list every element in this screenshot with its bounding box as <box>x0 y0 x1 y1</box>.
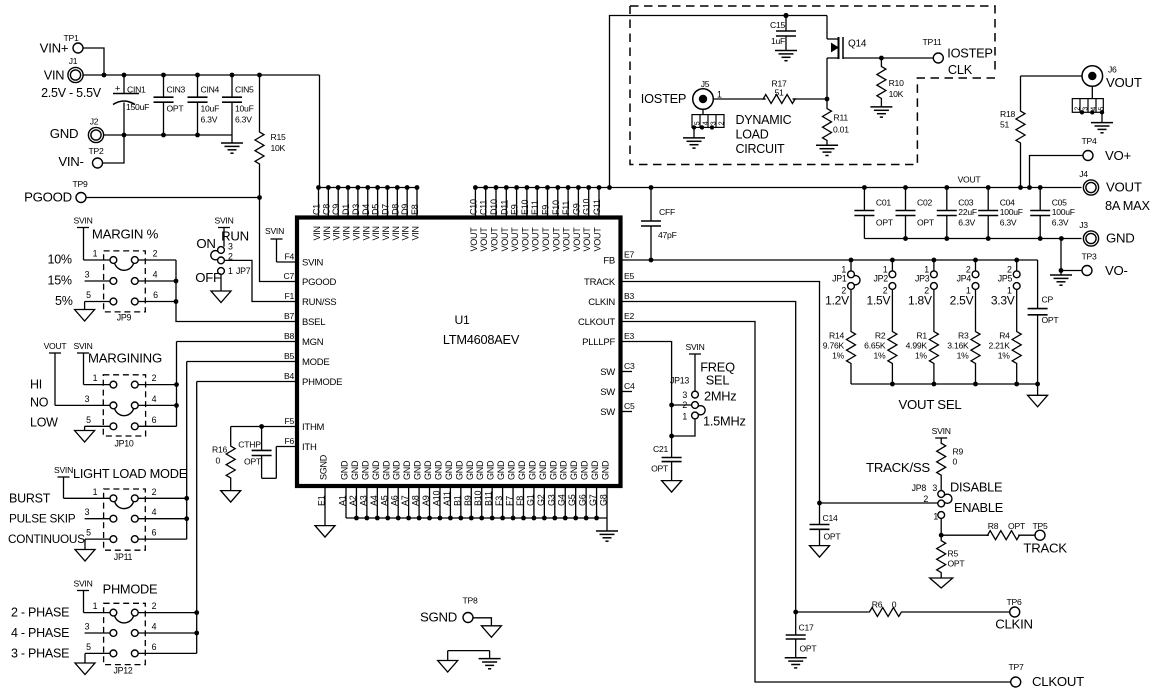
svg-text:J1: J1 <box>69 56 78 66</box>
svg-text:GND: GND <box>392 460 402 480</box>
svg-text:E9: E9 <box>510 204 520 215</box>
svg-text:5: 5 <box>694 121 701 125</box>
svg-text:R4: R4 <box>999 331 1010 341</box>
svg-text:SVIN: SVIN <box>685 342 704 352</box>
pin D1 VIN <box>341 188 352 241</box>
svg-text:VOUT: VOUT <box>500 227 510 252</box>
svg-text:SVIN: SVIN <box>54 465 73 475</box>
ground C17 <box>785 658 807 668</box>
svg-text:15%: 15% <box>48 274 72 288</box>
resistor R14 9.76K 1% <box>823 289 856 384</box>
test point TP1 VIN+ <box>40 33 83 56</box>
svg-text:A8: A8 <box>411 495 421 506</box>
svg-text:D10: D10 <box>489 199 499 215</box>
svg-text:D9: D9 <box>400 204 410 215</box>
svg-text:OPT: OPT <box>1008 521 1026 531</box>
svg-text:F7: F7 <box>505 496 515 506</box>
pin G8 GND <box>599 460 611 518</box>
svg-text:C02: C02 <box>917 198 932 208</box>
capacitor C21 OPT <box>651 444 682 481</box>
svg-text:VIN-: VIN- <box>58 154 83 169</box>
svg-text:B4: B4 <box>284 371 294 381</box>
svg-text:3.16K: 3.16K <box>947 341 969 351</box>
op-amp U1 LTM4608AEV module body <box>297 218 621 487</box>
svg-text:E10: E10 <box>520 199 530 215</box>
svg-text:4: 4 <box>1091 107 1098 111</box>
svg-text:GND: GND <box>50 126 79 141</box>
net SVIN at R9 <box>932 426 951 438</box>
svg-text:F11: F11 <box>561 201 571 215</box>
resistor R3 3.16K 1% <box>947 289 980 384</box>
svg-text:10%: 10% <box>48 253 72 267</box>
svg-text:SW: SW <box>600 407 615 418</box>
pin F8 GND <box>515 460 527 518</box>
svg-text:VOUT: VOUT <box>510 227 520 252</box>
svg-text:VIN: VIN <box>401 226 411 240</box>
jack J3 GND <box>1079 220 1134 246</box>
svg-text:BSEL: BSEL <box>302 317 325 328</box>
pin G5 GND <box>567 460 579 518</box>
ground E1 SGND <box>315 526 335 538</box>
svg-text:VIN: VIN <box>322 226 332 240</box>
svg-text:IOSTEP: IOSTEP <box>641 91 686 106</box>
capacitor CIN4 10uF <box>188 75 220 135</box>
svg-text:TP9: TP9 <box>72 179 87 189</box>
svg-text:VOUT: VOUT <box>582 227 592 252</box>
ground C15 <box>775 51 797 61</box>
svg-text:JP13: JP13 <box>670 376 689 386</box>
pin G10 VOUT <box>582 188 593 252</box>
pin B8 MGN <box>284 331 324 348</box>
jumper JP5 3.3V <box>991 260 1020 308</box>
svg-text:CIN4: CIN4 <box>201 85 220 95</box>
svg-text:VOUT: VOUT <box>572 227 582 252</box>
wire GND rail to VO- node <box>1059 239 1082 276</box>
svg-text:1.2V: 1.2V <box>825 294 849 308</box>
pin E2 CLKOUT <box>578 311 635 328</box>
wire PGOOD net <box>86 195 297 281</box>
svg-text:GND: GND <box>538 460 548 480</box>
svg-text:47pF: 47pF <box>658 230 677 240</box>
svg-text:A9: A9 <box>421 495 431 506</box>
svg-text:TP2: TP2 <box>88 146 103 156</box>
net SVIN at JP7 <box>214 216 233 247</box>
svg-text:CFF: CFF <box>659 207 675 217</box>
svg-text:C5: C5 <box>624 401 635 411</box>
wire ground tie <box>448 651 490 661</box>
svg-text:CONTINUOUS: CONTINUOUS <box>8 532 85 546</box>
svg-text:5: 5 <box>86 415 91 425</box>
svg-text:6.3V: 6.3V <box>235 115 252 125</box>
svg-text:R9: R9 <box>953 447 964 457</box>
pin G1 GND <box>525 460 537 518</box>
svg-text:JP1: JP1 <box>832 274 847 284</box>
svg-text:J2: J2 <box>90 117 99 127</box>
pin F11 VOUT <box>561 188 572 252</box>
svg-text:51: 51 <box>1000 120 1010 130</box>
svg-text:C04: C04 <box>1000 198 1015 208</box>
svg-text:JP8: JP8 <box>912 483 927 493</box>
wire input GND rail <box>103 133 232 143</box>
pin F5 ITHM <box>284 416 324 433</box>
svg-text:2MHz: 2MHz <box>704 389 736 404</box>
svg-text:OFF: OFF <box>195 270 221 285</box>
svg-text:4: 4 <box>153 270 158 280</box>
pin G11 VOUT <box>592 188 603 252</box>
wire ITHM net <box>231 424 297 429</box>
svg-text:RUN: RUN <box>221 229 249 244</box>
pin G7 GND <box>588 460 600 518</box>
svg-text:C21: C21 <box>653 444 668 454</box>
svg-text:RUN/SS: RUN/SS <box>302 297 336 308</box>
svg-text:GND: GND <box>454 460 464 480</box>
capacitor C05 100uF <box>1030 188 1075 239</box>
svg-text:G2: G2 <box>536 494 546 506</box>
jumper JP3 1.8V <box>908 260 937 308</box>
net SVIN at F4 <box>265 226 297 262</box>
svg-text:A7: A7 <box>400 495 410 506</box>
svg-text:MGN: MGN <box>302 337 324 348</box>
pin D4 VIN <box>361 188 372 241</box>
pin C3 SW <box>600 361 635 378</box>
svg-text:1uF: 1uF <box>771 36 785 46</box>
wire VIN rail <box>83 73 320 188</box>
svg-text:VOUT: VOUT <box>541 227 551 252</box>
svg-text:3.3V: 3.3V <box>991 294 1015 308</box>
pin F4 SVIN <box>284 252 323 269</box>
svg-text:OPT: OPT <box>824 532 842 542</box>
resistor R5 OPT <box>937 535 966 578</box>
svg-text:4: 4 <box>152 394 157 404</box>
svg-text:R6: R6 <box>872 600 883 610</box>
pin D9 VIN <box>400 188 411 241</box>
svg-text:NO: NO <box>30 396 49 410</box>
svg-text:SW: SW <box>600 387 615 398</box>
svg-text:GND: GND <box>371 460 381 480</box>
wire FB net <box>621 258 1038 263</box>
svg-text:OPT: OPT <box>800 644 818 654</box>
svg-text:C8: C8 <box>321 204 331 215</box>
resistor R9 0 <box>937 438 964 491</box>
svg-text:GND: GND <box>486 460 496 480</box>
svg-text:G4: G4 <box>557 494 567 506</box>
svg-text:OPT: OPT <box>876 218 894 228</box>
resistor R11 0.01 <box>823 99 850 145</box>
svg-text:GND: GND <box>423 460 433 480</box>
svg-text:CIN5: CIN5 <box>235 85 254 95</box>
svg-text:JP7: JP7 <box>236 266 251 276</box>
svg-text:VOUT: VOUT <box>490 227 500 252</box>
svg-text:F1: F1 <box>284 291 294 301</box>
svg-text:2: 2 <box>1007 264 1012 274</box>
svg-text:R15: R15 <box>271 132 286 142</box>
svg-text:VOUT: VOUT <box>1106 75 1142 90</box>
ground VOUT SEL <box>1028 395 1048 407</box>
svg-text:ITH: ITH <box>302 442 317 453</box>
svg-text:3: 3 <box>932 483 937 493</box>
svg-text:D11: D11 <box>499 200 509 215</box>
svg-text:C10: C10 <box>468 199 478 215</box>
svg-text:JP2: JP2 <box>873 274 888 284</box>
wire PLLLPF net <box>621 342 674 458</box>
svg-text:1.8V: 1.8V <box>908 294 932 308</box>
pin G6 GND <box>578 460 590 518</box>
svg-text:VO+: VO+ <box>1105 148 1132 163</box>
wire TRACK net <box>621 282 938 506</box>
svg-text:A10: A10 <box>431 490 441 506</box>
svg-text:C15: C15 <box>770 20 785 30</box>
ground tie earth side <box>479 659 501 669</box>
wire R17 to Q14 source <box>793 97 830 102</box>
svg-text:JP11: JP11 <box>114 552 133 562</box>
jumper JP12 PHMODE <box>11 582 197 676</box>
svg-text:B3: B3 <box>624 291 634 301</box>
pin C3 SW stub <box>621 371 633 373</box>
svg-text:VOUT: VOUT <box>1106 180 1142 195</box>
svg-text:OPT: OPT <box>948 559 966 569</box>
net SVIN at JP12 <box>73 579 92 613</box>
svg-text:3 - PHASE: 3 - PHASE <box>11 646 69 660</box>
svg-text:VOUT: VOUT <box>531 227 541 252</box>
pin A1 GND <box>338 460 350 518</box>
svg-text:A1: A1 <box>338 495 348 506</box>
svg-text:HI: HI <box>30 378 42 392</box>
jumper JP8 TRACK/SS <box>912 480 1003 538</box>
svg-text:SVIN: SVIN <box>265 226 284 236</box>
svg-text:OPT: OPT <box>244 457 262 467</box>
pin B11 GND <box>484 460 496 518</box>
ground R5 <box>930 578 953 588</box>
svg-text:R10: R10 <box>889 78 904 88</box>
svg-text:C01: C01 <box>876 198 891 208</box>
svg-text:E3: E3 <box>624 331 634 341</box>
svg-text:6: 6 <box>152 415 157 425</box>
capacitor C14 OPT <box>810 503 842 546</box>
svg-text:100uF: 100uF <box>1000 207 1023 217</box>
ground J5 shield <box>683 138 705 148</box>
svg-text:E8: E8 <box>410 204 420 215</box>
ground JP7 <box>211 291 231 303</box>
svg-text:6.3V: 6.3V <box>1000 218 1017 228</box>
svg-text:1: 1 <box>93 487 98 497</box>
ground tie signal side <box>438 661 458 673</box>
svg-text:F9: F9 <box>541 205 551 215</box>
svg-text:6.65K: 6.65K <box>864 341 886 351</box>
svg-text:R11: R11 <box>834 113 849 123</box>
svg-text:2: 2 <box>153 249 158 259</box>
jumper JP9 MARGIN % <box>48 227 177 323</box>
svg-text:CTHP: CTHP <box>238 440 261 450</box>
ground JP9 <box>75 310 95 322</box>
svg-text:2.5V - 5.5V: 2.5V - 5.5V <box>41 86 102 100</box>
svg-text:1: 1 <box>93 601 98 611</box>
svg-text:JP12: JP12 <box>113 666 132 676</box>
svg-text:F3: F3 <box>494 496 504 506</box>
test point TP4 VO+ <box>1081 136 1131 163</box>
svg-text:TP7: TP7 <box>1008 662 1023 672</box>
resistor R15 10K <box>255 75 286 198</box>
svg-text:B5: B5 <box>284 351 294 361</box>
resistor R8 OPT <box>941 521 1035 540</box>
pin C10 VOUT <box>468 188 479 252</box>
svg-text:1%: 1% <box>832 351 845 361</box>
svg-text:2.21K: 2.21K <box>988 341 1010 351</box>
ground TP8 <box>481 626 501 638</box>
svg-text:U1: U1 <box>454 313 470 327</box>
svg-text:CLKIN: CLKIN <box>995 617 1033 632</box>
svg-text:51: 51 <box>774 88 784 98</box>
svg-text:C4: C4 <box>624 381 635 391</box>
svg-text:JP9: JP9 <box>117 313 132 323</box>
wire TP2 to GND rail <box>103 135 125 163</box>
svg-text:JP3: JP3 <box>915 274 930 284</box>
node VOUT SEL label <box>899 397 962 412</box>
svg-text:OPT: OPT <box>651 464 669 474</box>
svg-text:F10: F10 <box>551 200 561 215</box>
pin D11 VOUT <box>499 188 510 252</box>
svg-text:8A MAX: 8A MAX <box>1105 198 1150 213</box>
svg-text:VIN: VIN <box>361 226 371 240</box>
svg-text:FB: FB <box>603 256 615 267</box>
test point TP5 TRACK <box>1023 521 1067 556</box>
svg-text:VOUT: VOUT <box>551 227 561 252</box>
pin A7 GND <box>400 460 412 518</box>
svg-text:DYNAMIC: DYNAMIC <box>736 113 792 127</box>
wire MODE net <box>184 362 297 540</box>
jumper JP10 MARGINING <box>30 351 177 449</box>
pin E8 VIN <box>410 188 421 241</box>
svg-text:2: 2 <box>718 121 725 125</box>
svg-text:6: 6 <box>152 642 157 652</box>
svg-text:GND: GND <box>507 460 517 480</box>
svg-text:SVIN: SVIN <box>73 216 92 226</box>
svg-text:G1: G1 <box>525 494 535 506</box>
test point TP6 CLKIN <box>995 597 1033 632</box>
resistor R17 51 <box>763 79 795 104</box>
ground JP10 <box>75 431 95 443</box>
pin A11 GND <box>442 460 454 518</box>
svg-text:DISABLE: DISABLE <box>950 480 1002 495</box>
svg-text:VIN: VIN <box>351 226 361 240</box>
svg-text:0: 0 <box>215 456 220 466</box>
svg-text:10uF: 10uF <box>235 104 254 114</box>
svg-text:GND: GND <box>590 460 600 480</box>
svg-text:C1: C1 <box>312 204 322 215</box>
svg-text:1: 1 <box>717 90 722 100</box>
svg-text:SGND: SGND <box>319 454 329 480</box>
svg-text:CP: CP <box>1042 295 1054 305</box>
capacitor CTHP OPT <box>238 427 276 479</box>
svg-text:R18: R18 <box>1000 109 1015 119</box>
svg-text:1%: 1% <box>998 351 1011 361</box>
svg-text:MODE: MODE <box>302 357 330 368</box>
svg-text:A5: A5 <box>379 495 389 506</box>
svg-text:LIGHT LOAD MODE: LIGHT LOAD MODE <box>73 466 187 481</box>
test point TP7 CLKOUT <box>1008 662 1084 689</box>
svg-text:1%: 1% <box>915 351 928 361</box>
test point TP11 IOSTEP CLK <box>923 37 993 77</box>
svg-text:CIN1: CIN1 <box>127 85 146 95</box>
pin E7 FB <box>603 250 634 267</box>
svg-text:3: 3 <box>85 270 90 280</box>
svg-text:G6: G6 <box>578 494 588 506</box>
jack J1 VIN <box>41 56 102 100</box>
ground GND bus <box>596 531 618 541</box>
svg-text:2: 2 <box>966 264 971 274</box>
svg-text:G11: G11 <box>592 199 602 215</box>
pin B4 PHMODE <box>284 371 342 388</box>
svg-text:TP8: TP8 <box>462 596 477 606</box>
svg-text:GND: GND <box>548 460 558 480</box>
pin C9 VIN <box>331 188 342 241</box>
svg-text:22uF: 22uF <box>958 207 977 217</box>
svg-text:CIN3: CIN3 <box>167 85 186 95</box>
svg-text:VOUT: VOUT <box>469 227 479 252</box>
svg-text:D3: D3 <box>351 204 361 215</box>
svg-text:A4: A4 <box>369 495 379 506</box>
resistor R1 4.99K 1% <box>906 289 939 384</box>
svg-text:OPT: OPT <box>917 218 935 228</box>
svg-text:GND: GND <box>1106 231 1135 246</box>
svg-text:2: 2 <box>152 601 157 611</box>
resistor R10 10K <box>877 58 904 107</box>
capacitor C17 OPT <box>786 612 818 658</box>
svg-text:CIRCUIT: CIRCUIT <box>736 142 786 156</box>
svg-text:C05: C05 <box>1052 198 1067 208</box>
svg-text:E1: E1 <box>317 495 327 506</box>
svg-text:5: 5 <box>86 642 91 652</box>
pin F1 RUN/SS <box>284 291 336 308</box>
svg-text:1: 1 <box>883 264 888 274</box>
svg-text:SVIN: SVIN <box>73 579 92 589</box>
pin D5 VIN <box>371 188 382 241</box>
pin F9 VOUT <box>541 188 552 252</box>
wire VOUT rail <box>473 185 1082 190</box>
test point TP9 PGOOD <box>24 179 88 205</box>
svg-text:Q14: Q14 <box>848 39 867 50</box>
svg-text:4.99K: 4.99K <box>906 341 928 351</box>
resistor R6 0 <box>869 600 1010 617</box>
pin C8 VIN <box>321 188 332 241</box>
svg-text:G8: G8 <box>599 494 609 506</box>
svg-text:A3: A3 <box>358 495 368 506</box>
wire PHMODE net <box>194 382 297 654</box>
svg-text:3: 3 <box>85 394 90 404</box>
pin E11 VOUT <box>530 188 541 252</box>
svg-text:10K: 10K <box>889 89 904 99</box>
svg-text:C3: C3 <box>624 361 635 371</box>
svg-text:VIN: VIN <box>391 226 401 240</box>
svg-text:GND: GND <box>413 460 423 480</box>
svg-text:GND: GND <box>340 460 350 480</box>
svg-text:SVIN: SVIN <box>73 341 92 351</box>
svg-text:GND: GND <box>569 460 579 480</box>
svg-text:1.5V: 1.5V <box>867 294 891 308</box>
svg-text:B9: B9 <box>463 495 473 506</box>
svg-text:G7: G7 <box>588 494 598 506</box>
svg-text:VIN: VIN <box>312 226 322 240</box>
svg-text:4: 4 <box>152 622 157 632</box>
svg-text:1%: 1% <box>957 351 970 361</box>
node VOUT label <box>958 175 982 185</box>
pin F6 ITH <box>284 436 316 453</box>
svg-text:2: 2 <box>152 487 157 497</box>
svg-text:VO-: VO- <box>1105 263 1128 278</box>
svg-text:0: 0 <box>892 600 897 610</box>
svg-text:CLKIN: CLKIN <box>588 297 615 308</box>
svg-text:C7: C7 <box>284 271 295 281</box>
svg-text:A6: A6 <box>390 495 400 506</box>
